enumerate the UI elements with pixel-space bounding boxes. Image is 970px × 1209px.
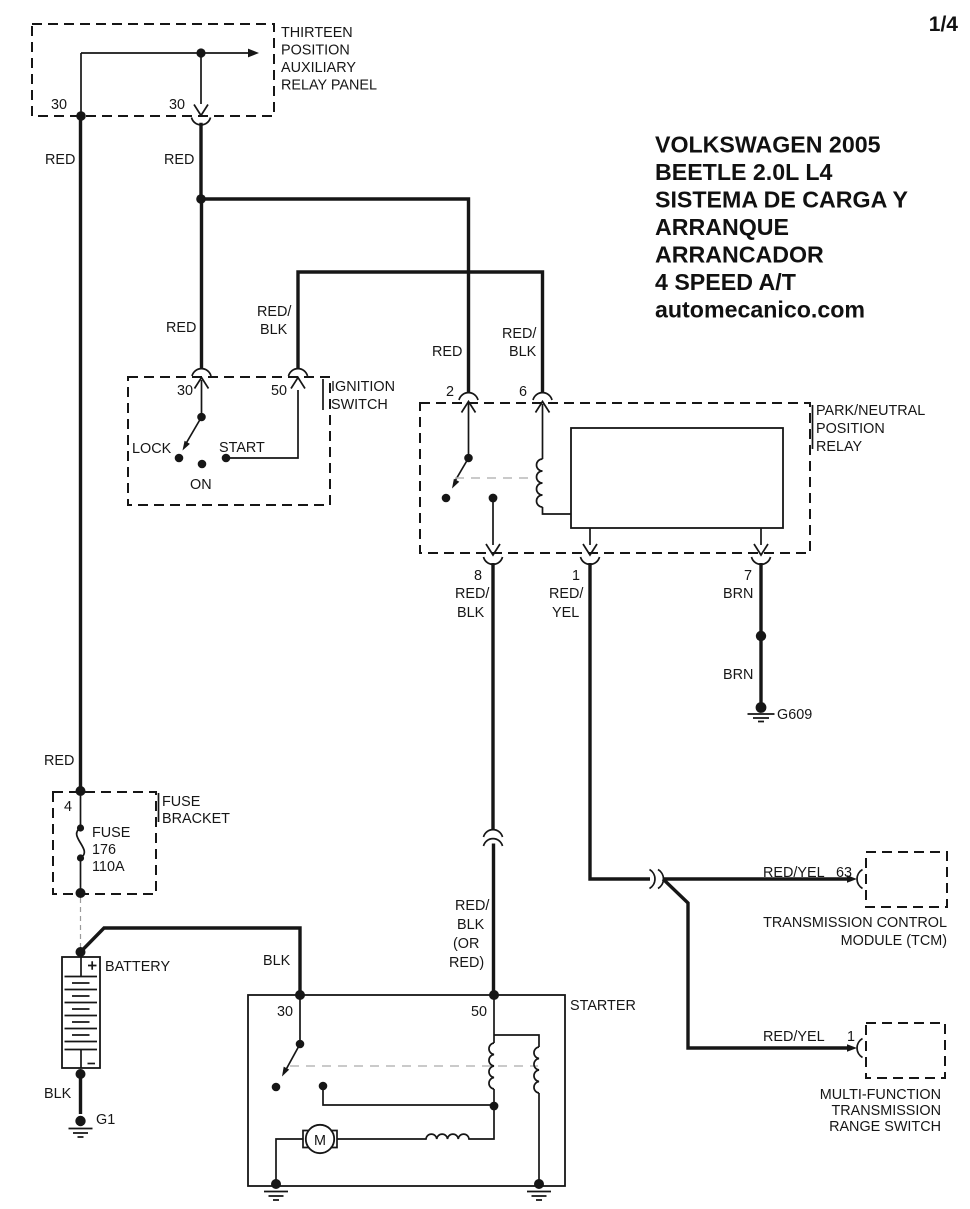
junction: panel terminal 30 (left): [76, 111, 86, 121]
connector: ignition pin 30 (cap + chevron): [192, 369, 211, 389]
wire: coil to internal module: [543, 507, 572, 514]
wire BRN: relay pin 7 to splice: [759, 563, 762, 703]
svg-text:RED/: RED/: [455, 898, 489, 914]
connector: relay pin 8 (chevron + cup): [484, 544, 503, 564]
wire RED/BLK: relay pin 8 down to inline connector: [491, 563, 494, 831]
svg-text:SWITCH: SWITCH: [331, 397, 388, 413]
title block: [655, 132, 908, 323]
fuse 176 110A (S-curve element): [77, 824, 85, 861]
starter terminal 50 dot: [489, 990, 499, 1000]
battery: [62, 957, 100, 1068]
svg-text:30: 30: [177, 383, 193, 399]
svg-text:BRACKET: BRACKET: [162, 811, 230, 827]
svg-text:FUSE: FUSE: [92, 825, 130, 841]
svg-text:6: 6: [519, 384, 527, 400]
wire: hold-in winding to ground: [538, 1093, 540, 1184]
wire: contact to pin 8 connector: [492, 502, 494, 545]
ground G609: [748, 702, 775, 721]
svg-text:TRANSMISSION CONTROL: TRANSMISSION CONTROL: [763, 915, 947, 931]
relay switch contact dot: [442, 494, 451, 503]
dashed link: fuse bracket to battery: [80, 898, 82, 948]
svg-text:RELAY: RELAY: [816, 439, 863, 455]
relay switch lever: [455, 458, 469, 481]
svg-text:RED/: RED/: [549, 586, 583, 602]
mechanical link (gray dashed): [455, 477, 535, 479]
svg-text:PARK/NEUTRAL: PARK/NEUTRAL: [816, 403, 925, 419]
wire end arrow at range switch: [847, 1044, 857, 1052]
svg-text:M: M: [314, 1133, 326, 1149]
connector: ignition pin 50 (cap + chevron): [289, 369, 308, 389]
junction dot on bus: [196, 48, 205, 57]
svg-text:RED/YEL: RED/YEL: [763, 865, 825, 881]
wire: drop to panel output connector: [200, 53, 202, 104]
svg-text:ARRANQUE: ARRANQUE: [655, 214, 789, 240]
connector cup at TCM: [857, 870, 862, 889]
contact START: [222, 454, 231, 463]
wire RED: panel middle down to junction: [199, 123, 202, 199]
inline connector (double arc): [650, 870, 664, 889]
svg-text:RANGE SWITCH: RANGE SWITCH: [829, 1119, 941, 1135]
svg-text:BLK: BLK: [509, 344, 537, 360]
battery negative terminal dot: [76, 1069, 86, 1079]
wire RED/YEL: connector to TCM: [663, 877, 848, 880]
junction dot: fuse bracket output: [76, 888, 86, 898]
svg-text:RED: RED: [44, 753, 74, 769]
relay output contact to pin 8: [489, 494, 498, 503]
motor feed contact dot: [319, 1082, 328, 1091]
svg-text:RED: RED: [166, 320, 196, 336]
junction dot: fuse bracket input: [76, 786, 86, 796]
wire RED/BLK: ignition pin 50 to relay pin 6: [298, 272, 543, 393]
svg-text:50: 50: [471, 1004, 487, 1020]
solenoid switch lever: [286, 1044, 301, 1071]
starter terminal 30 dot: [295, 990, 305, 1000]
wire: motor feed contact to solenoid junction: [323, 1086, 494, 1105]
park/neutral position relay (dashed box): [420, 403, 810, 553]
ignition switch arm pivot: [197, 413, 206, 422]
svg-text:RED/: RED/: [257, 304, 291, 320]
ground G1: [69, 1116, 93, 1137]
svg-text:4: 4: [64, 799, 72, 815]
wire to fuse: [80, 791, 82, 828]
wire RED: panel left terminal down to fuse bracket: [79, 116, 82, 791]
svg-text:THIRTEEN: THIRTEEN: [281, 25, 353, 41]
hold-in winding (coil): [534, 1047, 539, 1093]
svg-text:RED: RED: [164, 152, 194, 168]
transmission control module (dashed box): [866, 852, 947, 907]
wire: terminal 30 to solenoid switch pivot: [299, 995, 301, 1044]
label: THIRTEEN POSITION AUXILIARY RELAY PANEL: [281, 25, 377, 94]
solenoid switch pivot: [296, 1040, 305, 1049]
svg-text:VOLKSWAGEN 2005: VOLKSWAGEN 2005: [655, 132, 881, 158]
wire RED: junction to relay pin 2: [201, 199, 469, 393]
inline connector on RED/BLK wire (two caps): [484, 830, 503, 846]
wire: motor to ground: [276, 1139, 303, 1184]
fuse bracket (dashed box): [53, 792, 156, 894]
contact LOCK: [175, 454, 184, 463]
wire BLK: battery negative to ground: [79, 1074, 82, 1114]
svg-text:MULTI-FUNCTION: MULTI-FUNCTION: [820, 1087, 941, 1103]
svg-text:AUXILIARY: AUXILIARY: [281, 60, 356, 76]
svg-text:RED/YEL: RED/YEL: [763, 1029, 825, 1045]
svg-text:63: 63: [836, 865, 852, 881]
ground symbol (left): [264, 1192, 288, 1201]
svg-text:FUSE: FUSE: [162, 794, 200, 810]
wire RED/YEL: branch to multi-function switch: [663, 879, 848, 1048]
label RED/BLK (OR RED): [449, 898, 489, 971]
svg-text:ARRANCADOR: ARRANCADOR: [655, 242, 824, 268]
svg-text:MODULE (TCM): MODULE (TCM): [841, 933, 947, 949]
ignition switch arm lever: [186, 417, 202, 444]
svg-text:BLK: BLK: [44, 1086, 72, 1102]
svg-text:50: 50: [271, 383, 287, 399]
motor M: [303, 1125, 337, 1153]
svg-text:4 SPEED A/T: 4 SPEED A/T: [655, 269, 796, 295]
battery positive terminal dot: [76, 947, 86, 957]
svg-text:7: 7: [744, 568, 752, 584]
relay internal module (box): [571, 428, 783, 528]
wire: terminal 50 down: [493, 995, 495, 1043]
wire from fuse to bracket output: [80, 858, 82, 893]
svg-text:RED: RED: [45, 152, 75, 168]
svg-text:BLK: BLK: [457, 917, 485, 933]
thirteen position auxiliary relay panel (dashed box): [32, 24, 274, 116]
pull-in winding (coil): [489, 1043, 494, 1089]
connector: relay pin 1 (chevron + cup): [581, 544, 600, 564]
svg-text:BRN: BRN: [723, 586, 753, 602]
wire RED/BLK (OR RED): inline connector down to starter 50: [492, 844, 495, 996]
wire: pin 30 to switch pivot: [201, 380, 203, 417]
solenoid junction dot: [490, 1102, 499, 1111]
wire: branch to hold-in winding: [494, 1035, 539, 1047]
ground dot (hold-in winding): [534, 1179, 544, 1189]
svg-text:(OR: (OR: [453, 936, 479, 952]
wire RED: junction to ignition switch pin 30: [200, 199, 203, 369]
svg-text:STARTER: STARTER: [570, 998, 636, 1014]
label tick: [812, 405, 814, 449]
svg-text:BATTERY: BATTERY: [105, 959, 170, 975]
label tick: [322, 379, 324, 410]
svg-text:RED): RED): [449, 955, 484, 971]
svg-text:BEETLE 2.0L L4: BEETLE 2.0L L4: [655, 159, 832, 185]
label: MULTI-FUNCTION TRANSMISSION RANGE SWITCH: [820, 1087, 941, 1135]
svg-text:RED/: RED/: [455, 586, 489, 602]
wire end arrow at TCM: [847, 875, 857, 883]
multi-function transmission range switch (dashed box): [866, 1023, 945, 1078]
starter (solid box): [248, 995, 565, 1186]
svg-text:SISTEMA DE CARGA Y: SISTEMA DE CARGA Y: [655, 187, 908, 213]
svg-text:2: 2: [446, 384, 454, 400]
svg-text:8: 8: [474, 568, 482, 584]
svg-text:BLK: BLK: [457, 605, 485, 621]
svg-text:30: 30: [169, 97, 185, 113]
svg-text:BLK: BLK: [260, 322, 288, 338]
splice dot on BRN wire: [756, 631, 766, 641]
svg-text:RED/: RED/: [502, 326, 536, 342]
junction dot A: [196, 194, 206, 204]
svg-text:automecanico.com: automecanico.com: [655, 297, 865, 323]
ignition switch arm arrowhead: [180, 441, 190, 452]
mechanical link (gray dashed): [290, 1065, 538, 1067]
wire: pull-in winding to junction: [493, 1089, 495, 1106]
svg-text:G1: G1: [96, 1112, 115, 1128]
wire: drop to panel terminal 30 (left): [80, 53, 82, 116]
ignition switch (dashed box): [128, 377, 330, 505]
svg-text:30: 30: [277, 1004, 293, 1020]
svg-text:POSITION: POSITION: [816, 421, 885, 437]
wire: module to pin 1 connector: [589, 528, 591, 545]
svg-text:RELAY PANEL: RELAY PANEL: [281, 78, 377, 94]
svg-text:1/4: 1/4: [929, 13, 959, 36]
connector: relay pin 6 (cap + chevron): [533, 393, 552, 413]
svg-text:YEL: YEL: [552, 605, 579, 621]
svg-text:TRANSMISSION: TRANSMISSION: [831, 1103, 941, 1119]
wire: bus bar inside relay panel: [81, 52, 248, 54]
label tick: [158, 793, 160, 822]
svg-text:BRN: BRN: [723, 667, 753, 683]
relay coil: [537, 459, 543, 507]
solenoid switch arrowhead: [279, 1067, 289, 1078]
connector cup at range switch: [857, 1039, 862, 1058]
svg-text:G609: G609: [777, 707, 812, 723]
svg-text:RED: RED: [432, 344, 462, 360]
ground dot (motor): [271, 1179, 281, 1189]
svg-text:1: 1: [847, 1029, 855, 1045]
connector: relay pin 2 (cap + chevron): [459, 393, 478, 413]
wire: START contact to pin 50: [226, 390, 298, 458]
svg-text:IGNITION: IGNITION: [331, 379, 395, 395]
wire BLK: battery positive to starter 30: [81, 928, 301, 995]
arrow head on bus: [248, 49, 259, 58]
svg-text:BLK: BLK: [263, 953, 291, 969]
svg-text:176: 176: [92, 842, 116, 858]
solenoid switch contact dot: [272, 1083, 281, 1092]
label: FUSE 176 110A: [92, 825, 130, 875]
contact ON: [198, 460, 207, 469]
wire: module to pin 7 connector: [760, 528, 762, 545]
svg-text:POSITION: POSITION: [281, 43, 350, 59]
svg-text:30: 30: [51, 97, 67, 113]
relay switch arrowhead: [449, 479, 459, 490]
wire: pin 2 to relay switch pivot: [468, 404, 470, 458]
field winding (inductor): [337, 1106, 494, 1139]
connector: panel output chevron (male, down): [194, 105, 208, 116]
svg-text:1: 1: [572, 568, 580, 584]
connector: panel output cup (female): [192, 118, 211, 125]
svg-text:START: START: [219, 440, 265, 456]
wire RED/YEL: relay pin 1 down and right to inline connector: [590, 563, 650, 879]
relay switch pivot: [464, 454, 473, 463]
wire: pin 6 to coil: [542, 404, 544, 459]
svg-text:ON: ON: [190, 477, 212, 493]
connector: relay pin 7 (chevron + cup): [752, 544, 771, 564]
svg-text:110A: 110A: [92, 859, 125, 875]
svg-text:LOCK: LOCK: [132, 441, 172, 457]
ground symbol (right): [527, 1192, 551, 1201]
